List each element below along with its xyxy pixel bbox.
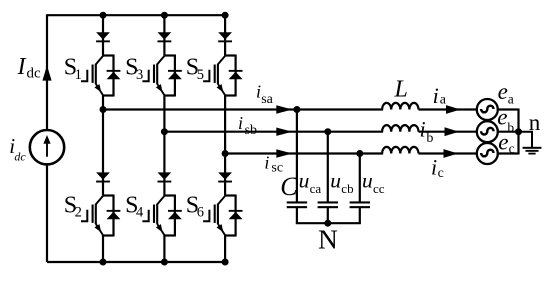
wire: i_sa line from leg to capacitor node (103, 108, 297, 110)
transistor S5 emitter with arrow (217, 84, 226, 96)
svg-text:i: i (238, 113, 243, 133)
node: neutral junction n (515, 128, 522, 135)
svg-text:i: i (264, 153, 269, 173)
label L (394, 77, 408, 103)
svg-text:u: u (299, 168, 310, 192)
svg-text:c: c (509, 141, 515, 156)
svg-text:i: i (420, 116, 426, 141)
svg-text:2: 2 (75, 205, 82, 221)
transistor S4 emitter with arrow (156, 224, 165, 236)
label i_a (433, 83, 447, 108)
svg-text:cb: cb (341, 181, 353, 196)
transistor S3 gate lead (142, 70, 148, 81)
wire: capacitor neutral tie (296, 222, 361, 224)
svg-text:1: 1 (75, 67, 82, 83)
svg-text:sa: sa (261, 92, 273, 107)
transistor S5 (IGBT body) (214, 56, 225, 84)
wire: leg 2 from top bus to upper switch (163, 15, 165, 55)
wire: i_sc line from leg to capacitor node (225, 152, 360, 154)
wire: leg 1 from top bus to upper switch (102, 15, 104, 55)
label S2 (64, 192, 82, 220)
current source internal arrow (43, 135, 50, 157)
transistor S6 (IGBT body) (214, 196, 225, 224)
wire: right neutral bus (517, 109, 519, 155)
label u_cb (330, 168, 353, 195)
wire: capacitor Cb bottom lead (327, 208, 329, 223)
diode: series blocking diode of S2 (96, 172, 110, 182)
wire: S2 emitter-bottom tie bar (103, 234, 114, 236)
diode: S2 branch diode (107, 210, 121, 219)
svg-text:4: 4 (136, 205, 144, 221)
wire: source e_a to neutral bus (497, 108, 519, 110)
svg-text:N: N (318, 224, 338, 255)
wire: capacitor Ca top lead (296, 110, 298, 202)
current source i_dc circle (30, 130, 64, 164)
wire: leg 3 from top bus to upper switch (224, 15, 226, 55)
transistor S3 emitter with arrow (156, 84, 165, 96)
node: bottom bus junction leg 2 (161, 259, 168, 266)
wire: S1 emitter-bottom tie bar (103, 94, 114, 96)
label i_sc (264, 153, 283, 176)
svg-text:a: a (440, 93, 447, 108)
wire: S3 collector-top tie bar (164, 54, 175, 56)
wire: left DC rail upper segment (46, 14, 48, 131)
wire: phase a line capacitor node to inductor (297, 108, 383, 110)
arrow: i_b direction (445, 127, 460, 136)
AC source e_c sine glyph (481, 150, 493, 157)
AC source e_b sine glyph (481, 128, 493, 135)
svg-text:ca: ca (310, 181, 322, 196)
node: top bus junction leg 1 (100, 12, 107, 19)
wire: S3 parallel-diode branch (174, 55, 176, 97)
wire: phase a inductor to source (419, 108, 478, 110)
wire: leg 2 lower block to bottom bus (163, 236, 165, 263)
svg-text:b: b (507, 120, 514, 135)
wire: source e_c to neutral bus (497, 152, 519, 154)
diode: S6 branch diode (229, 210, 243, 219)
arrow: Idc direction arrowhead on left rail (42, 65, 51, 80)
label i_sa (256, 82, 274, 107)
label u_ca (299, 168, 322, 195)
transistor S2 (IGBT body) (92, 196, 103, 224)
capacitor C phase c (350, 201, 370, 208)
label e_a (498, 79, 514, 107)
svg-text:L: L (394, 77, 408, 103)
diode: S4 branch diode (168, 210, 182, 219)
svg-text:u: u (330, 168, 341, 192)
svg-text:sb: sb (245, 123, 257, 138)
label S4 (125, 192, 144, 220)
wire: capacitor Cc top lead (359, 154, 361, 202)
wire: left DC rail lower segment (46, 163, 48, 262)
svg-text:a: a (508, 92, 514, 107)
node: capacitor branch b junction (324, 128, 331, 135)
wire: leg 1 AC node to lower switch (102, 110, 104, 196)
diode: S5 branch diode (229, 70, 243, 79)
wire: phase c line capacitor node to inductor (360, 152, 383, 154)
wire: capacitor Cc bottom lead (359, 208, 361, 223)
node: top bus junction leg 3 (222, 12, 229, 19)
node: capacitor branch a junction (293, 106, 300, 113)
svg-text:cc: cc (373, 181, 385, 196)
svg-text:6: 6 (197, 205, 204, 221)
label N (318, 224, 338, 255)
AC source e_c circle (477, 143, 498, 164)
wire: S5 emitter-bottom tie bar (225, 94, 236, 96)
arrow: i_c direction (444, 149, 459, 158)
label S5 (186, 55, 204, 83)
capacitor C phase a (287, 201, 307, 208)
ground symbol (523, 147, 542, 155)
svg-text:5: 5 (197, 67, 204, 83)
arrow: i_a direction (446, 105, 461, 114)
diode: series blocking diode of S3 (158, 32, 172, 42)
node: phase a output junction (100, 106, 107, 113)
label C (280, 172, 298, 201)
svg-text:e: e (497, 105, 507, 130)
wire: S2 collector-top tie bar (103, 194, 114, 196)
node: top bus junction leg 2 (161, 12, 168, 19)
label i_dc (9, 134, 26, 163)
wire: source e_b to neutral bus (497, 131, 519, 133)
svg-text:i: i (433, 83, 439, 108)
label i_b (420, 116, 434, 146)
inductor L phase c (382, 147, 418, 154)
wire: leg 3 upper block to AC node (224, 96, 226, 154)
label S1 (64, 55, 82, 83)
transistor S1 gate lead (81, 70, 87, 81)
svg-text:dc: dc (14, 149, 26, 163)
wire: S4 collector-top tie bar (164, 194, 175, 196)
transistor S1 emitter with arrow (94, 84, 103, 96)
svg-text:c: c (438, 166, 444, 181)
inductor L phase a (382, 103, 418, 110)
label n (529, 110, 541, 135)
label I_dc (17, 54, 42, 82)
transistor S4 gate lead (142, 210, 148, 221)
svg-text:3: 3 (136, 67, 143, 83)
wire: S3 emitter-bottom tie bar (164, 94, 175, 96)
wire: capacitor Ca bottom lead (296, 208, 298, 223)
svg-text:u: u (362, 168, 373, 192)
diode: S3 branch diode (168, 70, 182, 79)
diode: series blocking diode of S6 (218, 172, 232, 182)
svg-text:I: I (17, 54, 27, 80)
wire: phase b inductor to source (419, 131, 478, 133)
transistor S6 gate lead (203, 210, 209, 221)
wire: S6 emitter-bottom tie bar (225, 234, 236, 236)
label i_c (431, 155, 444, 182)
wire: S1 parallel-diode branch (112, 55, 114, 97)
svg-text:e: e (498, 129, 508, 154)
AC source e_a sine glyph (481, 106, 493, 113)
transistor S2 gate lead (81, 210, 87, 221)
arrow: i_sb direction (276, 128, 292, 136)
capacitor C phase b (318, 201, 338, 208)
diode: S1 branch diode (107, 70, 121, 79)
label S3 (125, 55, 143, 83)
node: bottom bus junction leg 1 (100, 259, 107, 266)
transistor S1 (IGBT body) (92, 56, 103, 84)
svg-text:e: e (498, 79, 508, 104)
transistor S3 (IGBT body) (153, 56, 164, 84)
node: phase c output junction (222, 150, 229, 157)
label u_cc (362, 168, 385, 195)
label e_c (498, 129, 514, 156)
arrow: i_sa direction (276, 105, 292, 113)
arrow: i_sc direction (276, 149, 292, 157)
svg-text:dc: dc (27, 66, 42, 82)
node: capacitor branch c junction (356, 150, 363, 157)
wire: S1 collector-top tie bar (103, 54, 114, 56)
label S6 (186, 192, 204, 220)
wire: neutral to ground (519, 132, 533, 148)
wire: phase c inductor to source (419, 152, 478, 154)
wire: S6 parallel-diode branch (235, 195, 237, 237)
transistor S5 gate lead (203, 70, 209, 81)
diode: series blocking diode of S5 (218, 32, 232, 42)
inductor L phase b (382, 125, 418, 132)
AC source e_a circle (477, 99, 498, 120)
wire: top DC bus (47, 14, 225, 16)
wire: leg 1 upper block to AC node (102, 96, 104, 110)
label e_b (497, 105, 514, 135)
svg-text:b: b (426, 131, 433, 146)
node: bottom bus junction leg 3 (222, 259, 229, 266)
wire: leg 2 upper block to AC node (163, 96, 165, 132)
wire: bottom DC bus (47, 261, 225, 263)
AC source e_b circle (477, 121, 498, 142)
wire: S5 parallel-diode branch (235, 55, 237, 97)
wire: leg 3 lower block to bottom bus (224, 236, 226, 263)
wire: S6 collector-top tie bar (225, 194, 236, 196)
transistor S6 emitter with arrow (217, 224, 226, 236)
wire: leg 2 AC node to lower switch (163, 132, 165, 196)
wire: S4 emitter-bottom tie bar (164, 234, 175, 236)
svg-text:i: i (431, 155, 437, 180)
wire: leg 1 lower block to bottom bus (102, 236, 104, 263)
wire: capacitor Cb top lead (327, 132, 329, 202)
wire: S5 collector-top tie bar (225, 54, 236, 56)
label i_sb (238, 113, 257, 138)
transistor S4 (IGBT body) (153, 196, 164, 224)
wire: phase b line capacitor node to inductor (328, 131, 383, 133)
svg-text:C: C (280, 172, 298, 201)
wire: leg 3 AC node to lower switch (224, 154, 226, 196)
node: phase b output junction (161, 128, 168, 135)
wire: i_sb line from leg to capacitor node (164, 131, 327, 133)
transistor S2 emitter with arrow (94, 224, 103, 236)
diode: series blocking diode of S1 (96, 32, 110, 42)
wire: S4 parallel-diode branch (174, 195, 176, 237)
node N junction (324, 220, 331, 227)
wire: S2 parallel-diode branch (112, 195, 114, 237)
diode: series blocking diode of S4 (158, 172, 172, 182)
